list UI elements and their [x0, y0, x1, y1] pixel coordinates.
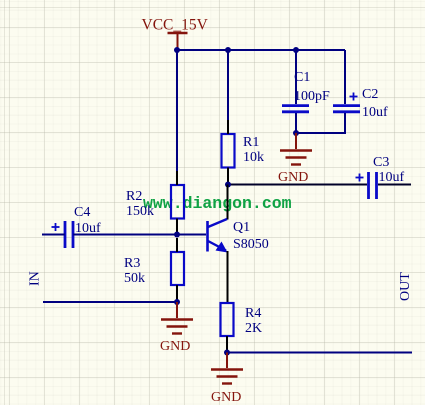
svg-text:GND: GND — [278, 170, 308, 185]
svg-text:C3: C3 — [373, 155, 389, 170]
capacitor C3 plates — [369, 172, 377, 199]
ground symbol bottom (R4) — [211, 353, 243, 384]
transistor Q1 emitter diagonal — [208, 241, 226, 251]
transistor Q1 collector diagonal — [208, 219, 227, 227]
wire base net — [73, 234, 206, 236]
capacitor C2 plates — [333, 106, 360, 112]
node junction R3 ground — [174, 299, 180, 305]
capacitor C2 polarity plus — [350, 93, 358, 101]
wire collector drop — [227, 185, 229, 220]
svg-text:R3: R3 — [124, 256, 140, 271]
wire R1 branch x=228 — [227, 50, 229, 121]
capacitor C1 plates — [282, 106, 309, 112]
node junction top R2 — [174, 47, 180, 53]
svg-text:IN: IN — [28, 271, 43, 286]
capacitor C4 polarity plus — [52, 223, 60, 231]
wire emitter output y=352.6 — [227, 352, 412, 354]
svg-text:C4: C4 — [74, 205, 90, 220]
ground symbol top (C1 C2) — [280, 133, 312, 165]
svg-text:R1: R1 — [243, 135, 259, 150]
resistor R1 pin bottom — [227, 168, 229, 185]
capacitor C4 plates — [65, 221, 73, 248]
svg-text:150k: 150k — [126, 204, 154, 219]
node junction top R1 — [225, 47, 231, 53]
svg-text:C1: C1 — [294, 70, 310, 85]
svg-text:S8050: S8050 — [233, 237, 269, 252]
wire C1 bottom — [295, 113, 297, 134]
svg-text:Q1: Q1 — [233, 220, 250, 235]
svg-text:OUT: OUT — [398, 272, 413, 301]
wire input return y=302 — [43, 301, 177, 303]
svg-text:GND: GND — [160, 339, 190, 354]
resistor R2 pin top — [176, 171, 178, 185]
resistor R4 pin bottom — [226, 336, 228, 353]
wire input stub — [42, 234, 65, 236]
svg-text:2K: 2K — [245, 321, 262, 336]
capacitor C3 polarity plus — [356, 174, 364, 182]
wire emitter drop — [227, 251, 229, 303]
wire R2 branch x=177 — [176, 50, 178, 172]
svg-text:50k: 50k — [124, 271, 145, 286]
svg-text:10uf: 10uf — [362, 105, 388, 120]
wire C2 bottom — [296, 113, 345, 133]
svg-text:C2: C2 — [362, 87, 378, 102]
ground symbol middle (R3) — [161, 302, 193, 334]
svg-text:www.diangon.com: www.diangon.com — [143, 194, 292, 213]
svg-text:R4: R4 — [245, 306, 261, 321]
resistor R2 pin bottom — [176, 219, 178, 236]
wire C3 output — [378, 184, 411, 186]
resistor R1 pin top — [227, 120, 229, 134]
resistor R2 — [171, 185, 184, 219]
wire top rail y=50 — [177, 49, 345, 51]
resistor R4 — [221, 303, 234, 336]
svg-text:100pF: 100pF — [294, 89, 330, 104]
transistor Q1 base bar — [206, 221, 209, 252]
node junction R1 collector — [225, 182, 231, 188]
svg-text:10k: 10k — [243, 150, 264, 165]
node junction top C1 — [293, 47, 299, 53]
wire C2 branch — [344, 50, 346, 104]
node junction R4 ground — [224, 350, 230, 356]
svg-text:10uf: 10uf — [379, 170, 405, 185]
resistor R3 pin top — [176, 238, 178, 252]
svg-text:GND: GND — [211, 390, 241, 405]
power bar symbol VCC — [168, 33, 188, 49]
svg-text:VCC_15V: VCC_15V — [142, 17, 209, 34]
transistor Q1 — [208, 219, 228, 253]
resistor R1 — [222, 134, 235, 168]
transistor Q1 emitter arrow — [216, 242, 228, 253]
svg-text:R2: R2 — [126, 189, 142, 204]
resistor R3 — [171, 252, 184, 285]
wire collector net y=184.5 — [228, 184, 367, 186]
wire C1 branch x=296 — [295, 50, 297, 104]
node junction base R2 R3 — [174, 232, 180, 238]
node junction C1/C2 ground — [293, 130, 299, 136]
resistor R3 pin bottom — [176, 285, 178, 302]
